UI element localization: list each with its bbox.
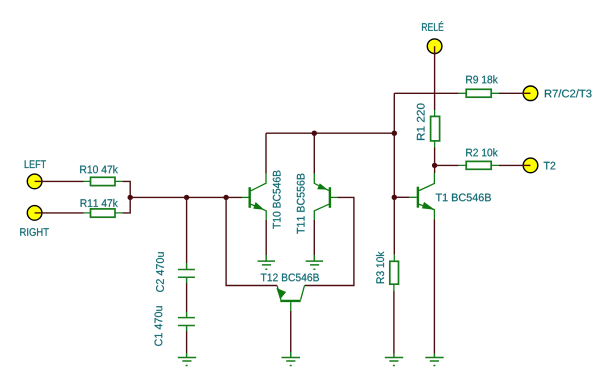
wire node D to T1 collector (434, 165, 436, 173)
terminal RELE (427, 39, 442, 54)
label R11 47k (81, 199, 118, 207)
label LEFT (25, 160, 46, 168)
wire R9 row from R3 line to R9 (394, 92, 458, 94)
wire RELE to R1 (434, 46, 436, 110)
ground under T1 emitter (425, 354, 443, 366)
wire R10 to node A corner (123, 181, 131, 197)
label RIGHT (20, 228, 49, 236)
resistor R1 (431, 110, 440, 148)
resistor R9 (459, 89, 499, 97)
wire C2 to C1 (186, 283, 188, 312)
resistor R3 (390, 255, 399, 291)
junction T11 emitter at top bus (312, 131, 317, 136)
ground under C1 (178, 353, 196, 366)
wire T11 collector to ground (313, 220, 315, 256)
transistor T1 (409, 173, 434, 220)
junction node D below R1 (432, 163, 437, 168)
wire node A to T10 base (130, 196, 242, 198)
label RELE (422, 21, 443, 31)
wire R1 to node D (434, 148, 436, 166)
label R3 10k (rotated) (376, 252, 384, 284)
wire R3 to ground (393, 291, 395, 354)
junction top bus at R3 line (392, 131, 397, 136)
capacitor C1 (178, 312, 195, 331)
wire top bus T10/T11 collectors to R3 line (266, 132, 394, 134)
junction node B (184, 195, 189, 200)
label T1 BC546B (436, 194, 491, 202)
wire LEFT input to R10 (35, 180, 84, 182)
terminal T2 (523, 158, 538, 173)
junction node A (128, 195, 133, 200)
label T10 BC546B (rotated) (273, 171, 281, 229)
transistor T12 (277, 286, 304, 312)
label T11 BC556B (rotated) (297, 174, 305, 234)
resistor R2 (459, 161, 499, 169)
ground under T11 collector (306, 255, 323, 269)
wire R3 line vertical (393, 93, 395, 255)
wire T10 emitter to ground (265, 220, 267, 256)
capacitor C2 (178, 263, 195, 283)
resistor R10 (84, 177, 123, 185)
wire T10 collector up (265, 133, 267, 173)
wire T1 base from node (394, 196, 409, 198)
wire node D to R2 (435, 164, 459, 166)
wire T12 base to ground (290, 311, 292, 352)
wire C1 to ground (186, 331, 188, 353)
label R9 18k (466, 75, 498, 83)
terminal LEFT (27, 174, 42, 189)
terminal RIGHT (27, 206, 42, 221)
terminal R7/C2/T3 (523, 86, 538, 101)
label R10 47k (80, 165, 118, 173)
wire R11 to node A corner (123, 197, 131, 213)
ground under T12 (282, 352, 301, 366)
resistor R11 (84, 209, 123, 217)
wire R9 to terminal R7/C2/T3 (499, 92, 531, 94)
wire RIGHT input to R11 (35, 212, 84, 214)
label C1 470u (rotated) (155, 306, 163, 346)
label R1 220 (rotated) (417, 104, 425, 141)
transistor T11 (314, 174, 337, 221)
wire R2 to terminal T2 (499, 164, 531, 166)
junction node C (223, 195, 228, 200)
label R2 10k (466, 148, 498, 156)
wire T1 emitter to ground (433, 220, 435, 354)
ground under T10 emitter (258, 255, 275, 269)
wire node C down and right to T12 emitter (226, 197, 277, 285)
wire T12 collector to T11 base (305, 197, 354, 285)
label C2 470u (rotated) (156, 252, 164, 292)
wire node B down to C2 (186, 197, 188, 263)
label T12 BC546B (261, 274, 319, 282)
label T2 (544, 162, 556, 170)
junction T1 base at R3 line (392, 195, 397, 200)
transistor T10 (242, 174, 266, 221)
ground under R3 (385, 354, 403, 366)
wire T11 emitter down from top bus (313, 133, 315, 173)
label R7/C2/T3 (545, 89, 592, 97)
